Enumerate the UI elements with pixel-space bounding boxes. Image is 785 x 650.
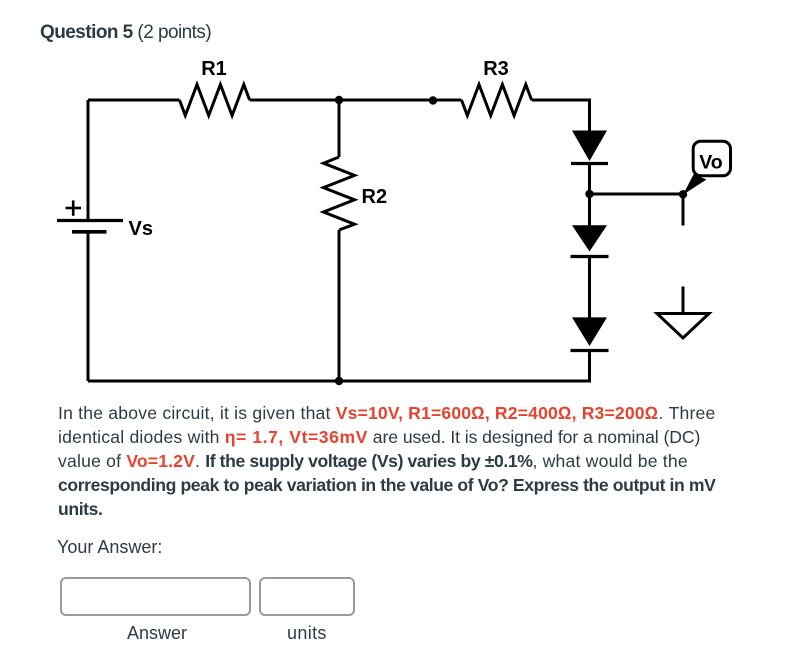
wire D3 to bottom-right corner: [88, 351, 590, 382]
wire left upper segment: [87, 100, 90, 219]
wire D2 to D3: [588, 257, 591, 318]
node E junction (R2 bottom): [335, 377, 343, 385]
wire top-left segment: [88, 99, 180, 102]
svg-text:Vs: Vs: [129, 218, 153, 240]
Vo pointer wedge: [683, 174, 707, 195]
wire node C to node D: [590, 193, 684, 196]
resistor R1: [180, 58, 250, 116]
units caption: [287, 623, 327, 643]
wire R1 to node A: [250, 99, 339, 102]
your answer label: [57, 537, 162, 557]
svg-text:R2: R2: [362, 186, 388, 208]
wire output stub: [682, 194, 685, 226]
question title: [40, 22, 211, 43]
wire D1 to node C: [588, 164, 591, 195]
diode D2: [571, 225, 609, 256]
wire R2 branch top: [338, 100, 341, 157]
question body text: [58, 401, 758, 521]
resistor R3: [462, 58, 532, 116]
wire node C to D2: [588, 194, 591, 226]
svg-text:Vo: Vo: [699, 152, 723, 174]
answer caption: [127, 623, 187, 643]
wire R3 to top-right corner, down to D1: [532, 100, 590, 131]
label Vo box: [693, 141, 730, 176]
svg-text:R1: R1: [201, 58, 227, 80]
diode D3: [571, 317, 609, 350]
node A junction (R2 tap): [335, 96, 343, 104]
wire left lower segment: [87, 232, 90, 381]
wire R2 branch bottom: [338, 230, 341, 381]
node D output: [679, 190, 687, 198]
node B junction: [429, 96, 437, 104]
wire node A to node B: [339, 99, 433, 102]
wire node B to R3: [433, 99, 462, 102]
battery + polarity mark: [66, 200, 82, 215]
diode D1: [571, 131, 608, 164]
ground stub: [682, 287, 685, 314]
answer input box: [60, 577, 251, 616]
svg-text:R3: R3: [483, 58, 509, 80]
resistor R2: [324, 157, 388, 230]
battery Vs negative plate: [72, 230, 107, 234]
battery Vs positive plate: [57, 219, 123, 222]
ground: [657, 314, 709, 339]
node C junction (output tap): [585, 190, 593, 198]
units input box: [259, 577, 355, 616]
